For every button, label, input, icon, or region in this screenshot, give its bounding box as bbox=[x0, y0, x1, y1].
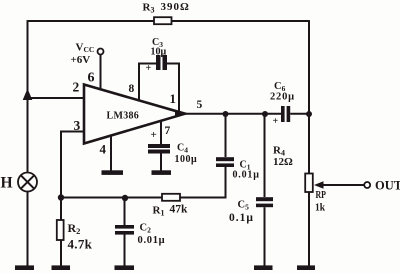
svg-text:6: 6 bbox=[88, 71, 95, 86]
svg-text:0.01μ: 0.01μ bbox=[138, 235, 166, 246]
wire C1 to feedback line bbox=[180, 167, 226, 198]
svg-text:1k: 1k bbox=[315, 202, 326, 214]
terminal OUT bbox=[364, 182, 370, 188]
svg-text:C4: C4 bbox=[177, 143, 188, 155]
node feedback junction C2 bbox=[122, 195, 128, 201]
node feedback junction R2 bbox=[58, 194, 64, 200]
capacitor C3 bbox=[156, 55, 161, 70]
wire pin 2 input bbox=[28, 97, 85, 99]
svg-text:+: + bbox=[146, 63, 152, 74]
wire top feedback left segment bbox=[28, 20, 155, 22]
wire pin 7 drop bbox=[160, 121, 162, 145]
terminal Vcc bbox=[98, 49, 104, 55]
wire R2 to ground bbox=[60, 240, 62, 266]
wire right vertical from top corner to output node bbox=[308, 20, 310, 114]
wire C2 to ground bbox=[124, 235, 126, 267]
svg-text:C5: C5 bbox=[238, 200, 250, 212]
wire pin 4 to ground bbox=[110, 136, 112, 172]
wire C4 to ground bbox=[160, 154, 162, 172]
ground C2 bbox=[115, 265, 135, 270]
wire H to ground bbox=[27, 192, 29, 267]
svg-text:C2: C2 bbox=[140, 223, 152, 235]
resistor R1 bbox=[162, 194, 180, 201]
ground C4 bbox=[152, 170, 172, 175]
wire RP to ground bbox=[308, 192, 310, 266]
wiper arrow of RP bbox=[320, 184, 365, 186]
wire C6 to right rail bbox=[290, 113, 309, 115]
svg-text:+6V: +6V bbox=[71, 54, 91, 66]
svg-text:LM386: LM386 bbox=[107, 110, 140, 121]
svg-text:1: 1 bbox=[170, 91, 177, 106]
wire pin 8 riser bbox=[139, 64, 156, 101]
wire C1 riser bbox=[225, 114, 227, 157]
capacitor C4 bbox=[148, 144, 170, 148]
svg-text:12Ω: 12Ω bbox=[273, 156, 293, 168]
svg-text:8: 8 bbox=[129, 83, 135, 95]
svg-text:3: 3 bbox=[74, 118, 81, 133]
svg-text:390Ω: 390Ω bbox=[161, 1, 190, 13]
ground C5 bbox=[254, 265, 273, 270]
transducer H bbox=[18, 173, 37, 192]
svg-text:R2: R2 bbox=[68, 221, 81, 236]
wire left vertical rail bbox=[27, 20, 29, 173]
wire R2 drop bbox=[60, 198, 62, 221]
svg-text:R3: R3 bbox=[143, 2, 155, 15]
potentiometer RP bbox=[305, 174, 313, 193]
wire Vcc to pin 6 bbox=[100, 55, 102, 91]
svg-text:R1: R1 bbox=[153, 205, 165, 218]
op-amp apex fill bbox=[175, 110, 186, 118]
arrow on left rail at pin 2 junction bbox=[23, 89, 33, 101]
svg-text:220μ: 220μ bbox=[270, 92, 295, 103]
ground R2 bbox=[52, 265, 71, 270]
node right rail junction bbox=[306, 111, 312, 117]
wire C2 drop bbox=[124, 198, 126, 225]
ground H bbox=[15, 265, 34, 270]
wire right rail to potentiometer bbox=[308, 114, 310, 174]
node output junction C1 bbox=[223, 111, 229, 117]
ground pin 4 bbox=[102, 170, 124, 175]
svg-text:10μ: 10μ bbox=[151, 47, 167, 58]
ground RP bbox=[297, 265, 315, 270]
svg-text:7: 7 bbox=[165, 125, 171, 137]
svg-text:4.7k: 4.7k bbox=[68, 237, 93, 252]
svg-text:0.01μ: 0.01μ bbox=[233, 170, 260, 181]
svg-text:2: 2 bbox=[73, 80, 80, 95]
wire C5 to ground bbox=[264, 207, 266, 266]
svg-text:+: + bbox=[273, 116, 279, 127]
svg-text:VCC: VCC bbox=[76, 42, 95, 55]
svg-text:0.1μ: 0.1μ bbox=[229, 212, 254, 224]
resistor R3 bbox=[154, 17, 172, 24]
op-amp U1 LM386 bbox=[84, 85, 185, 144]
svg-text:47k: 47k bbox=[170, 204, 189, 216]
capacitor C5 bbox=[256, 197, 273, 201]
node output junction C5 bbox=[262, 111, 268, 117]
capacitor C6 bbox=[281, 106, 285, 122]
svg-text:+: + bbox=[151, 129, 157, 141]
svg-text:RP: RP bbox=[316, 190, 327, 201]
capacitor C1 bbox=[216, 157, 234, 161]
wire top feedback right segment bbox=[172, 20, 310, 22]
wire C3 to pin 1 bbox=[167, 64, 179, 112]
svg-text:5: 5 bbox=[197, 99, 203, 111]
svg-text:H: H bbox=[1, 175, 13, 192]
wire pin 3 input bbox=[61, 132, 84, 198]
resistor R2 bbox=[57, 220, 64, 240]
wire C5 drop bbox=[264, 114, 266, 197]
svg-text:100μ: 100μ bbox=[175, 154, 198, 165]
capacitor C2 bbox=[115, 225, 134, 229]
wire feedback line left segment bbox=[61, 197, 162, 199]
wire output pin 5 bbox=[183, 113, 281, 115]
svg-text:4: 4 bbox=[100, 142, 107, 157]
svg-text:OUT: OUT bbox=[375, 179, 400, 193]
